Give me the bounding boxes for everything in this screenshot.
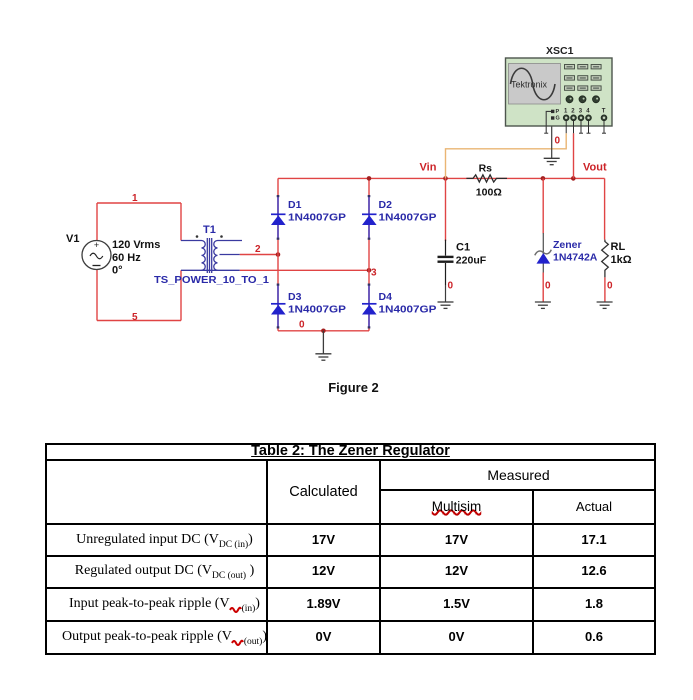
junction Vout node xyxy=(571,176,576,181)
zener branch wire lower xyxy=(542,273,544,302)
zener branch wire upper xyxy=(542,178,544,233)
junction bridge top-right xyxy=(367,176,372,181)
T1 phase dot left xyxy=(196,235,199,238)
capacitor C1 branch wire upper xyxy=(445,178,447,241)
junction node 3 xyxy=(367,268,372,273)
header Measured xyxy=(381,461,656,489)
svg-text:60 Hz: 60 Hz xyxy=(112,252,141,264)
wire node 3 (transformer bottom to bridge right) xyxy=(240,269,369,271)
junction node 2 xyxy=(276,252,281,257)
diode D3 xyxy=(271,284,286,329)
horizontal grid lines xyxy=(45,459,656,461)
svg-text:Zener: Zener xyxy=(553,239,582,251)
scope pin G xyxy=(551,116,554,119)
svg-text:120 Vrms: 120 Vrms xyxy=(112,239,160,251)
transformer T1 xyxy=(181,238,242,273)
svg-text:100Ω: 100Ω xyxy=(476,187,502,199)
svg-text:D4: D4 xyxy=(379,291,393,303)
header Calculated xyxy=(268,461,379,523)
svg-text:1: 1 xyxy=(132,193,138,204)
svg-text:T: T xyxy=(602,109,606,115)
wire: V1 loop left vertical upper xyxy=(96,203,98,241)
svg-text:Tektronix: Tektronix xyxy=(511,80,548,90)
T1 bottom lead xyxy=(181,269,240,271)
wire node 2 (center tap to bridge) xyxy=(240,254,278,256)
svg-text:1N4007GP: 1N4007GP xyxy=(379,212,437,224)
svg-text:Vout: Vout xyxy=(583,162,607,174)
header Actual xyxy=(534,491,654,523)
T1 secondary top lead (stub) xyxy=(218,240,243,242)
svg-text:0: 0 xyxy=(555,136,561,147)
scope pin P xyxy=(551,110,554,113)
scope pin stubs xyxy=(544,121,606,134)
wire scope channel A (orange) xyxy=(446,133,567,178)
scope knobs xyxy=(566,96,600,103)
wire bridge left vertical xyxy=(277,178,279,330)
T1 secondary winding xyxy=(214,241,218,271)
svg-text:P: P xyxy=(556,109,560,115)
svg-text:V1: V1 xyxy=(66,233,79,245)
junction bridge bottom (ground) xyxy=(321,329,326,334)
wire main horizontal (bridge top to RL corner) xyxy=(278,177,605,179)
ground (scope) xyxy=(544,158,560,164)
resistor RL xyxy=(602,240,609,278)
svg-text:TS_POWER_10_TO_1: TS_POWER_10_TO_1 xyxy=(154,274,269,286)
svg-text:220uF: 220uF xyxy=(456,255,487,267)
C1 branch wire lower xyxy=(445,285,447,302)
diode D1 xyxy=(271,195,286,240)
ground (C1) xyxy=(438,302,454,308)
T1 core lines xyxy=(207,238,211,273)
svg-text:1kΩ: 1kΩ xyxy=(611,254,632,266)
row 4 label xyxy=(45,622,275,651)
svg-text:0: 0 xyxy=(545,281,551,292)
scope screen xyxy=(509,64,561,105)
svg-text:3: 3 xyxy=(371,268,377,279)
wire: V1 loop top (node 1) xyxy=(97,202,181,204)
wire: V1 loop left vertical lower xyxy=(96,270,98,321)
svg-text:0: 0 xyxy=(607,281,613,292)
table title xyxy=(45,444,656,459)
oscilloscope XSC1 xyxy=(506,46,613,133)
svg-text:D1: D1 xyxy=(288,199,302,211)
diode D2 xyxy=(362,195,377,240)
svg-text:+: + xyxy=(94,240,99,250)
svg-text:1N4742A: 1N4742A xyxy=(553,252,598,264)
wire: V1 loop right vertical lower xyxy=(180,270,182,320)
row 3 label xyxy=(45,589,275,619)
scope screen sine wave xyxy=(511,68,556,100)
wire bridge bottom xyxy=(278,330,369,332)
T1 primary top lead xyxy=(181,240,202,242)
row 2 label xyxy=(45,557,275,585)
wire scope channel B (red) xyxy=(573,133,575,178)
wire scope ground pin xyxy=(551,120,553,158)
row 1 label xyxy=(45,525,275,555)
zener diode D5 1N4742A xyxy=(535,233,552,273)
wire bridge right vertical xyxy=(368,178,370,330)
svg-text:5: 5 xyxy=(132,312,138,323)
capacitor C1 xyxy=(438,240,454,285)
svg-text:RL: RL xyxy=(611,241,626,253)
svg-text:2: 2 xyxy=(255,244,261,255)
AC source V1 symbol xyxy=(82,240,111,270)
svg-text:0°: 0° xyxy=(112,265,123,277)
RL branch wire upper xyxy=(604,178,606,239)
scope channel pins xyxy=(563,115,607,121)
svg-text:D2: D2 xyxy=(379,199,393,211)
svg-text:C1: C1 xyxy=(456,242,470,254)
ground (bridge bottom) xyxy=(315,331,331,360)
svg-text:Vin: Vin xyxy=(420,162,437,174)
T1 primary winding xyxy=(202,241,206,271)
ground (zener) xyxy=(535,302,551,308)
vertical grid lines xyxy=(266,459,268,656)
T1 center tap lead xyxy=(220,254,240,256)
svg-text:1N4007GP: 1N4007GP xyxy=(288,212,346,224)
svg-text:G: G xyxy=(556,116,560,122)
resistor Rs xyxy=(466,175,507,182)
ground (RL) xyxy=(597,302,613,308)
scope buttons grid xyxy=(565,65,602,91)
junction Vin node xyxy=(443,176,448,181)
data table xyxy=(45,443,656,655)
wire: V1 loop bottom (node 5) xyxy=(97,320,181,322)
svg-text:0: 0 xyxy=(448,281,454,292)
svg-text:1N4007GP: 1N4007GP xyxy=(379,304,437,316)
svg-text:T1: T1 xyxy=(203,224,216,236)
header Multisim (spellcheck squiggle) xyxy=(381,491,532,523)
svg-text:Rs: Rs xyxy=(479,163,493,175)
scope body xyxy=(506,58,613,126)
scope P bracket wire xyxy=(546,111,551,133)
svg-text:1N4007GP: 1N4007GP xyxy=(288,304,346,316)
figure caption xyxy=(7,380,693,395)
svg-text:XSC1: XSC1 xyxy=(546,46,574,57)
outer border xyxy=(45,443,656,655)
svg-text:0: 0 xyxy=(299,320,305,331)
junction zener node xyxy=(541,176,546,181)
diode D4 xyxy=(362,284,377,329)
T1 phase dot right xyxy=(220,235,223,238)
RL branch wire lower xyxy=(604,277,606,301)
wire: V1 loop right vertical upper xyxy=(180,203,182,241)
svg-text:D3: D3 xyxy=(288,291,302,303)
